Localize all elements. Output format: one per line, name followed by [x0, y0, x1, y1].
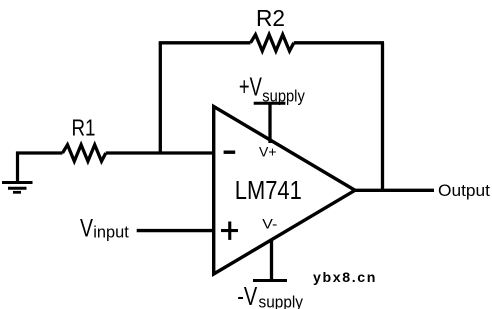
svg-text:V: V	[80, 215, 93, 243]
svg-text:Output: Output	[438, 182, 490, 200]
label -Vsupply	[237, 281, 303, 309]
svg-text:ybx8.cn: ybx8.cn	[313, 270, 377, 286]
svg-text:V+: V+	[259, 144, 277, 160]
wire output	[355, 189, 434, 192]
svg-text:R1: R1	[72, 115, 96, 141]
wire ground to R1	[16, 151, 63, 154]
wire Vinput to non-inverting input	[137, 229, 214, 232]
wire R1 to inverting input	[106, 151, 214, 154]
wire top right segment	[294, 41, 384, 44]
op-amp U1 LM741 triangle	[214, 107, 355, 275]
resistor R1	[63, 145, 106, 161]
label Vinput	[80, 215, 129, 243]
wire top left segment	[159, 41, 251, 44]
svg-text:-V: -V	[237, 281, 258, 309]
power -Vsupply pin wire	[270, 239, 273, 281]
power +Vsupply pin wire	[268, 103, 271, 143]
ground	[2, 152, 33, 193]
svg-text:supply: supply	[259, 293, 304, 309]
power -Vsupply bar	[253, 279, 287, 282]
wire feedback vertical right	[381, 43, 384, 191]
inverting input marker -	[224, 151, 236, 154]
svg-text:R2: R2	[256, 5, 285, 31]
svg-text:V-: V-	[262, 216, 277, 232]
power +Vsupply bar	[254, 102, 286, 105]
non-inverting input marker +	[221, 222, 238, 240]
svg-text:LM741: LM741	[235, 175, 302, 205]
resistor R2	[251, 35, 294, 51]
wire feedback vertical left	[159, 43, 162, 153]
svg-text:input: input	[93, 223, 129, 242]
svg-text:+V: +V	[239, 72, 262, 102]
label +Vsupply	[239, 72, 305, 106]
svg-text:supply: supply	[262, 87, 305, 106]
